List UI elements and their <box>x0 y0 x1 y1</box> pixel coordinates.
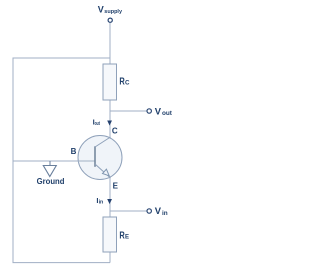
svg-text:in: in <box>162 210 168 217</box>
transistor emitter arrowhead <box>103 169 110 176</box>
wire: left loop rail (top horizontal, left vertical, bottom horizontal) <box>13 58 110 263</box>
svg-text:in: in <box>99 200 104 206</box>
transistor base bar <box>94 146 96 167</box>
svg-text:R: R <box>119 231 124 242</box>
transistor Q1 body <box>78 136 122 180</box>
svg-text:supply: supply <box>104 9 123 15</box>
svg-text:C: C <box>125 79 130 86</box>
wire: transistor emitter down to resistor RE top <box>109 178 111 217</box>
svg-text:C: C <box>112 127 118 136</box>
ground triangle <box>43 166 56 177</box>
terminal Vsupply <box>108 18 112 22</box>
transistor collector lead <box>95 137 111 147</box>
current arrow Iout <box>107 121 112 126</box>
svg-text:V: V <box>155 105 162 116</box>
wire: RE bottom down to bottom rail <box>109 252 111 263</box>
ground stem <box>49 161 51 166</box>
resistor RE <box>103 217 117 252</box>
svg-text:V: V <box>98 4 104 14</box>
wire: Vin branch <box>110 210 147 212</box>
svg-text:R: R <box>119 76 124 87</box>
wire: Vout branch <box>110 110 147 112</box>
wire: ground/base wire from left rail to transistor base <box>13 160 95 162</box>
svg-text:E: E <box>113 182 119 191</box>
svg-text:E: E <box>125 235 129 241</box>
svg-text:V: V <box>155 205 162 216</box>
resistor RC <box>103 64 117 100</box>
svg-text:out: out <box>162 110 173 117</box>
transistor emitter lead <box>95 164 111 178</box>
current arrow Iin <box>107 199 112 204</box>
wire: Vsupply terminal down to resistor RC top <box>109 23 111 64</box>
svg-text:Ground: Ground <box>37 176 65 186</box>
wire: RC bottom down to transistor collector <box>109 100 111 137</box>
svg-text:B: B <box>71 147 77 156</box>
terminal Vout <box>147 109 151 113</box>
terminal Vin <box>147 209 151 213</box>
svg-text:out: out <box>95 121 101 127</box>
